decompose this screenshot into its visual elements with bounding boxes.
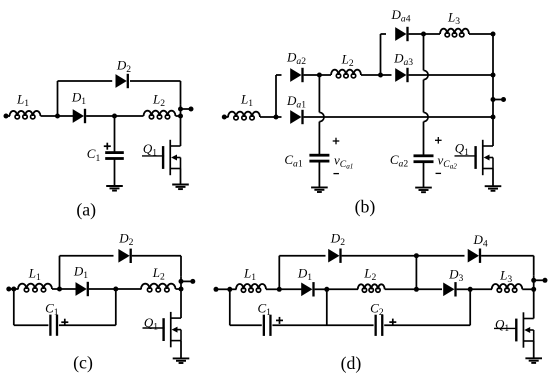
svg-text:(a): (a) xyxy=(76,199,96,220)
wire bottom rail left (c) xyxy=(14,324,49,326)
wire top-to-main vertical (d) xyxy=(415,256,417,290)
wire top rail seg4 (d) xyxy=(481,255,534,257)
node output terminal (a) xyxy=(189,107,194,112)
diode D3 (d) xyxy=(444,282,457,296)
wire main node to D1 (a) xyxy=(58,115,74,117)
wire top rail seg3 (d) xyxy=(416,255,464,257)
wire bottom branch left vertical (c) xyxy=(13,289,15,325)
node after L1 (c) xyxy=(57,287,62,292)
diode D1 (a) xyxy=(73,109,86,123)
wire L3 to right vertical (b) xyxy=(469,33,493,35)
node D after D3 (d) xyxy=(468,287,473,292)
wire top rail right segment (a) xyxy=(130,80,181,82)
wire D1 to node B (d) xyxy=(315,288,327,290)
wire node to L2 (b) xyxy=(319,74,331,76)
wire output stub (b) xyxy=(493,99,504,101)
wire Ca1 vertical upper (b) xyxy=(318,75,320,112)
plus of vCa1 (b) xyxy=(333,138,340,145)
node output junction (a) xyxy=(178,107,183,112)
diode D1 (c) xyxy=(76,282,89,296)
wire bottom rail seg2 (d) xyxy=(272,324,373,326)
wire node to L2 (c) xyxy=(116,288,142,290)
node input terminal (c) xyxy=(6,287,11,292)
wire D1 to node (c) xyxy=(89,288,116,290)
node A after L1 (d) xyxy=(277,287,282,292)
plus polarity C1 (d) xyxy=(276,317,283,324)
wire second rail start (b) xyxy=(276,74,282,76)
wire top rail right (c) xyxy=(132,255,181,257)
ground under Ca1 (b) xyxy=(311,187,328,192)
inductor L1 (b) xyxy=(228,112,260,120)
wire top rail seg1 (d) xyxy=(279,255,325,257)
node C1 tap (a) xyxy=(112,114,117,119)
minus of vCa1 (b) xyxy=(333,173,339,175)
wire top rail start (b) xyxy=(381,33,387,35)
wire node up to top rail (a) xyxy=(57,81,59,116)
wire top rail down right vertical (d) xyxy=(533,256,535,276)
wire C1 vertical top (a) xyxy=(114,116,116,152)
node main rail right (b) xyxy=(491,115,496,120)
ground under Q1 (b) xyxy=(485,186,502,191)
wire Ca2 to ground (b) xyxy=(423,163,425,188)
wire node up to top rail (c) xyxy=(59,256,61,289)
node Da4 cathode (b) xyxy=(421,32,426,37)
wire C1 node to L2 (a) xyxy=(115,115,144,117)
inductor L2 (b) xyxy=(331,70,361,78)
mosfet Q1 (c) xyxy=(143,312,182,347)
wire node B to L2 (d) xyxy=(327,288,358,290)
wire L1 to node (a) xyxy=(41,115,58,117)
inductor L2 (c) xyxy=(141,284,176,292)
capacitor C1 (c) xyxy=(49,315,58,336)
mosfet Q1 (b) xyxy=(455,140,494,175)
wire C1 vertical bottom (a) xyxy=(114,160,116,187)
inductor L3 (d) xyxy=(492,284,523,292)
wire input to junction (c) xyxy=(9,288,14,290)
capacitor C1 (d) xyxy=(263,315,272,336)
wire output stub (d) xyxy=(534,279,545,281)
wire node D down vertical (d) xyxy=(469,289,471,325)
wire node up to second rail (b) xyxy=(275,75,277,117)
wire L2 to right vertical (c) xyxy=(176,288,182,290)
wire node A to D1 (d) xyxy=(279,288,302,290)
wire D3 to node D (d) xyxy=(457,288,471,290)
wire node B down vertical (d) xyxy=(326,289,328,325)
wire L2 to right vertical (a) xyxy=(176,115,181,117)
node D1 cathode (c) xyxy=(113,287,118,292)
node second rail right (b) xyxy=(491,73,496,78)
node L3 junction (d) xyxy=(531,287,536,292)
diode Da1 (b) xyxy=(291,110,304,124)
wire Ca2 vertical middle (b) xyxy=(423,80,425,113)
inductor L1 (a) xyxy=(10,111,41,119)
plus polarity C1 (c) xyxy=(61,319,68,326)
node L2 right (b) xyxy=(378,73,383,78)
diode D4 (d) xyxy=(468,249,481,263)
wire node to D1 (c) xyxy=(60,288,77,290)
node input terminal (a) xyxy=(4,114,9,119)
wire bottom rail right (c) xyxy=(59,324,116,326)
inductor L2 (d) xyxy=(358,284,385,292)
node output junction (d) xyxy=(531,278,536,283)
inductor L1 (c) xyxy=(18,284,52,292)
ground under C1 (a) xyxy=(106,186,123,191)
wire D1 to C1 node (a) xyxy=(86,115,114,117)
wire hop over second rail at Ca2 branch (b) xyxy=(424,70,429,79)
wire L2 to node (b) xyxy=(361,74,381,76)
wire Q1 source to ground (a) xyxy=(180,169,182,185)
svg-text:(c): (c) xyxy=(73,352,93,373)
wire junction to L1 (d) xyxy=(230,288,237,290)
wire Ca2 vertical lower (b) xyxy=(423,122,425,155)
capacitor C1 (a) xyxy=(105,151,124,160)
wire input to junction (d) xyxy=(216,288,230,290)
ground under Q1 (a) xyxy=(172,185,189,190)
wire top rail left segment (a) xyxy=(58,80,113,82)
wire bottom branch right vertical (c) xyxy=(115,289,117,325)
wire right vertical stub-to-L2 (a) xyxy=(180,105,182,116)
wire right vertical top (b) xyxy=(492,34,494,146)
wire junction to D3 (d) xyxy=(416,288,442,290)
diode D2 (a) xyxy=(116,74,129,88)
ground under Ca2 (b) xyxy=(415,188,432,193)
wire Q1 source to ground (d) xyxy=(533,341,535,358)
wire L1 to node (b) xyxy=(260,116,276,118)
node output terminal (c) xyxy=(190,279,195,284)
node bottom branch tap (c) xyxy=(11,287,16,292)
wire right vertical to Q1 drain (c) xyxy=(180,289,182,318)
mosfet Q1 (a) xyxy=(142,140,181,175)
plus of vCa2 (b) xyxy=(435,137,442,144)
wire bottom left vertical (d) xyxy=(229,289,231,325)
node Da2 cathode (b) xyxy=(317,73,322,78)
wire main line Da1 segment (b) xyxy=(276,116,282,118)
capacitor Ca2 (b) xyxy=(414,154,434,163)
mosfet Q1 (d) xyxy=(494,312,534,347)
wire hop over main line at Ca1 branch (b) xyxy=(319,112,324,121)
node output junction (b) xyxy=(491,97,496,102)
wire output stub (a) xyxy=(181,108,192,110)
wire input junction to L1 (c) xyxy=(14,288,19,290)
svg-text:(b): (b) xyxy=(355,196,376,217)
capacitor Ca1 (b) xyxy=(309,154,329,163)
node after L1 (a) xyxy=(55,114,60,119)
wire bottom rail seg3 (d) xyxy=(384,324,470,326)
wire input to L1 (b) xyxy=(224,116,228,118)
inductor L1 (d) xyxy=(236,284,266,292)
wire right vertical to Q1 drain (d) xyxy=(533,289,535,318)
ground under Q1 (c) xyxy=(173,358,190,363)
plus polarity C1 (a) xyxy=(104,143,111,150)
wire node up to top rail (b) xyxy=(380,34,382,75)
node input terminal (d) xyxy=(214,287,219,292)
wire right vertical mid (c) xyxy=(180,277,182,289)
node top rail junction (d) xyxy=(414,253,419,258)
wire L2 to mid junction (d) xyxy=(385,288,417,290)
svg-text:(d): (d) xyxy=(341,353,362,374)
node output terminal (b) xyxy=(501,97,506,102)
capacitor C2 (d) xyxy=(375,315,384,336)
wire bottom rail seg1 (d) xyxy=(230,324,262,326)
wire node A up to top rail (d) xyxy=(278,256,280,290)
wire top rail down right vertical (a) xyxy=(180,81,182,105)
wire right vertical mid (d) xyxy=(533,276,535,290)
inductor L2 (a) xyxy=(144,111,176,119)
node output terminal (d) xyxy=(543,278,548,283)
node mid main junction (d) xyxy=(414,287,419,292)
wire Ca1 to ground (b) xyxy=(318,162,320,187)
wire L3 to right vertical (d) xyxy=(522,288,533,290)
wire second rail Da3 segment (b) xyxy=(381,74,392,76)
wire top rail seg2 (d) xyxy=(342,255,417,257)
wire Ca1 vertical lower (b) xyxy=(318,122,320,154)
node L2 junction (c) xyxy=(179,287,184,292)
wire top rail down (c) xyxy=(180,256,182,277)
node output junction (c) xyxy=(179,279,184,284)
wire Da3 to right vertical (b) xyxy=(409,74,493,76)
wire Q1 source to ground (c) xyxy=(180,341,182,359)
inductor L3 (b) xyxy=(440,29,469,37)
diode D2 (d) xyxy=(329,249,342,263)
minus of vCa2 (b) xyxy=(436,172,442,174)
node L2 junction (a) xyxy=(178,114,183,119)
wire node D to L3 (d) xyxy=(470,288,492,290)
wire Da4 to node (b) xyxy=(409,33,424,35)
wire hop over main line at Ca2 branch (b) xyxy=(424,112,429,121)
wire Ca2 vertical top (b) xyxy=(423,34,425,70)
wire Q1 source to ground (b) xyxy=(492,169,494,187)
node top right corner (b) xyxy=(491,32,496,37)
diode Da2 (b) xyxy=(291,68,304,82)
wire node to L3 (b) xyxy=(424,33,441,35)
diode D2 (c) xyxy=(119,249,132,263)
diode Da3 (b) xyxy=(396,68,409,82)
wire L1 to node A (d) xyxy=(266,288,279,290)
diode Da4 (b) xyxy=(396,27,409,41)
wire output stub (c) xyxy=(181,280,193,282)
wire L1 to node (c) xyxy=(52,288,60,290)
plus polarity C2 (d) xyxy=(389,319,396,326)
diode D1 (d) xyxy=(302,282,315,296)
wire Da1 to right vertical (b) xyxy=(304,116,493,118)
node after L1 (b) xyxy=(274,115,279,120)
wire top rail left (c) xyxy=(60,255,114,257)
wire Da2 to node (b) xyxy=(304,74,320,76)
node input terminal (b) xyxy=(222,115,227,120)
node B after D1 (d) xyxy=(324,287,329,292)
wire input to L1 (a) xyxy=(6,115,10,117)
wire right vertical to Q1 drain (a) xyxy=(180,116,182,146)
node bottom branch tap (d) xyxy=(227,287,232,292)
ground under Q1 (d) xyxy=(525,358,542,363)
